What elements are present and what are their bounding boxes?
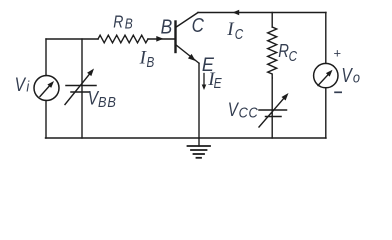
svg-text:o: o: [353, 69, 360, 86]
svg-text:B: B: [161, 16, 173, 39]
svg-text:+: +: [334, 46, 342, 61]
svg-text:R: R: [113, 13, 123, 32]
svg-text:B: B: [98, 93, 107, 110]
svg-text:B: B: [147, 54, 155, 71]
svg-text:B: B: [125, 15, 133, 32]
svg-text:V: V: [15, 74, 27, 96]
svg-text:R: R: [278, 41, 289, 62]
svg-text:E: E: [214, 75, 223, 92]
svg-text:C: C: [192, 14, 205, 37]
svg-text:V: V: [228, 98, 239, 120]
svg-text:C: C: [239, 103, 249, 120]
svg-text:C: C: [235, 26, 244, 43]
svg-text:i: i: [26, 77, 30, 94]
svg-text:C: C: [289, 48, 298, 65]
svg-text:I: I: [226, 19, 235, 40]
svg-text:V: V: [341, 64, 353, 86]
svg-text:C: C: [249, 103, 259, 120]
svg-text:B: B: [107, 93, 116, 110]
